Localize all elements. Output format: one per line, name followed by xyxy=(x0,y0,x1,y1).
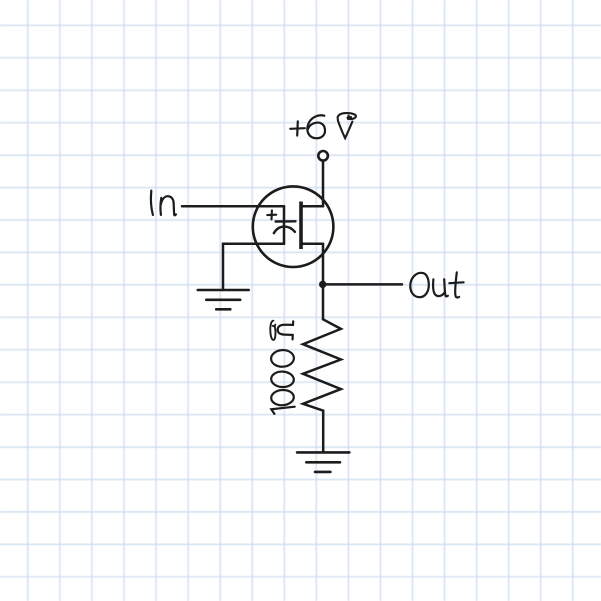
label In xyxy=(151,191,176,216)
MOSFET Q1: gate vertical plate xyxy=(283,206,286,243)
label 1000 Ohm (rotated): digit 1 xyxy=(271,407,294,414)
ground symbol (bottom) xyxy=(297,452,349,472)
ground symbol (gate) xyxy=(198,290,249,309)
MOSFET Q1: gate capacitor flat plate xyxy=(276,220,296,223)
MOSFET Q1: channel bar xyxy=(299,202,303,250)
MOSFET Q1: drain stub xyxy=(301,205,323,208)
wire: node to Out xyxy=(323,283,402,286)
power terminal +6V xyxy=(318,151,328,161)
label 1000 Ohm (rotated): omega body xyxy=(278,321,294,339)
wire: gate bottom to ground xyxy=(223,244,284,290)
label +6 V: plus sign xyxy=(290,121,305,135)
MOSFET Q1: gate capacitor plus sign xyxy=(267,210,276,219)
wire: In to gate xyxy=(182,205,284,208)
label 1000 Ohm (rotated): omega swash xyxy=(270,321,275,340)
label Out xyxy=(410,272,463,297)
label +6 V: letter V with swash xyxy=(338,113,356,138)
label 1000 Ohm (rotated): digit 0 (second) xyxy=(271,371,294,388)
node junction dot xyxy=(319,281,326,288)
wire: terminal to drain xyxy=(322,161,325,206)
MOSFET Q1: gate capacitor curved plate xyxy=(274,227,295,234)
label +6 V: digit 6 xyxy=(307,115,325,138)
label 1000 Ohm (rotated): digit 0 (third) xyxy=(271,350,295,368)
MOSFET Q1: source stub xyxy=(301,242,323,245)
wire: resistor to ground xyxy=(322,411,325,453)
wire: source to node xyxy=(322,244,325,285)
wire: node to resistor xyxy=(322,284,325,319)
resistor R1 zigzag xyxy=(303,319,341,410)
label 1000 Ohm (rotated): digit 0 (first) xyxy=(271,389,295,406)
MOSFET Q1: body circle xyxy=(253,186,334,267)
